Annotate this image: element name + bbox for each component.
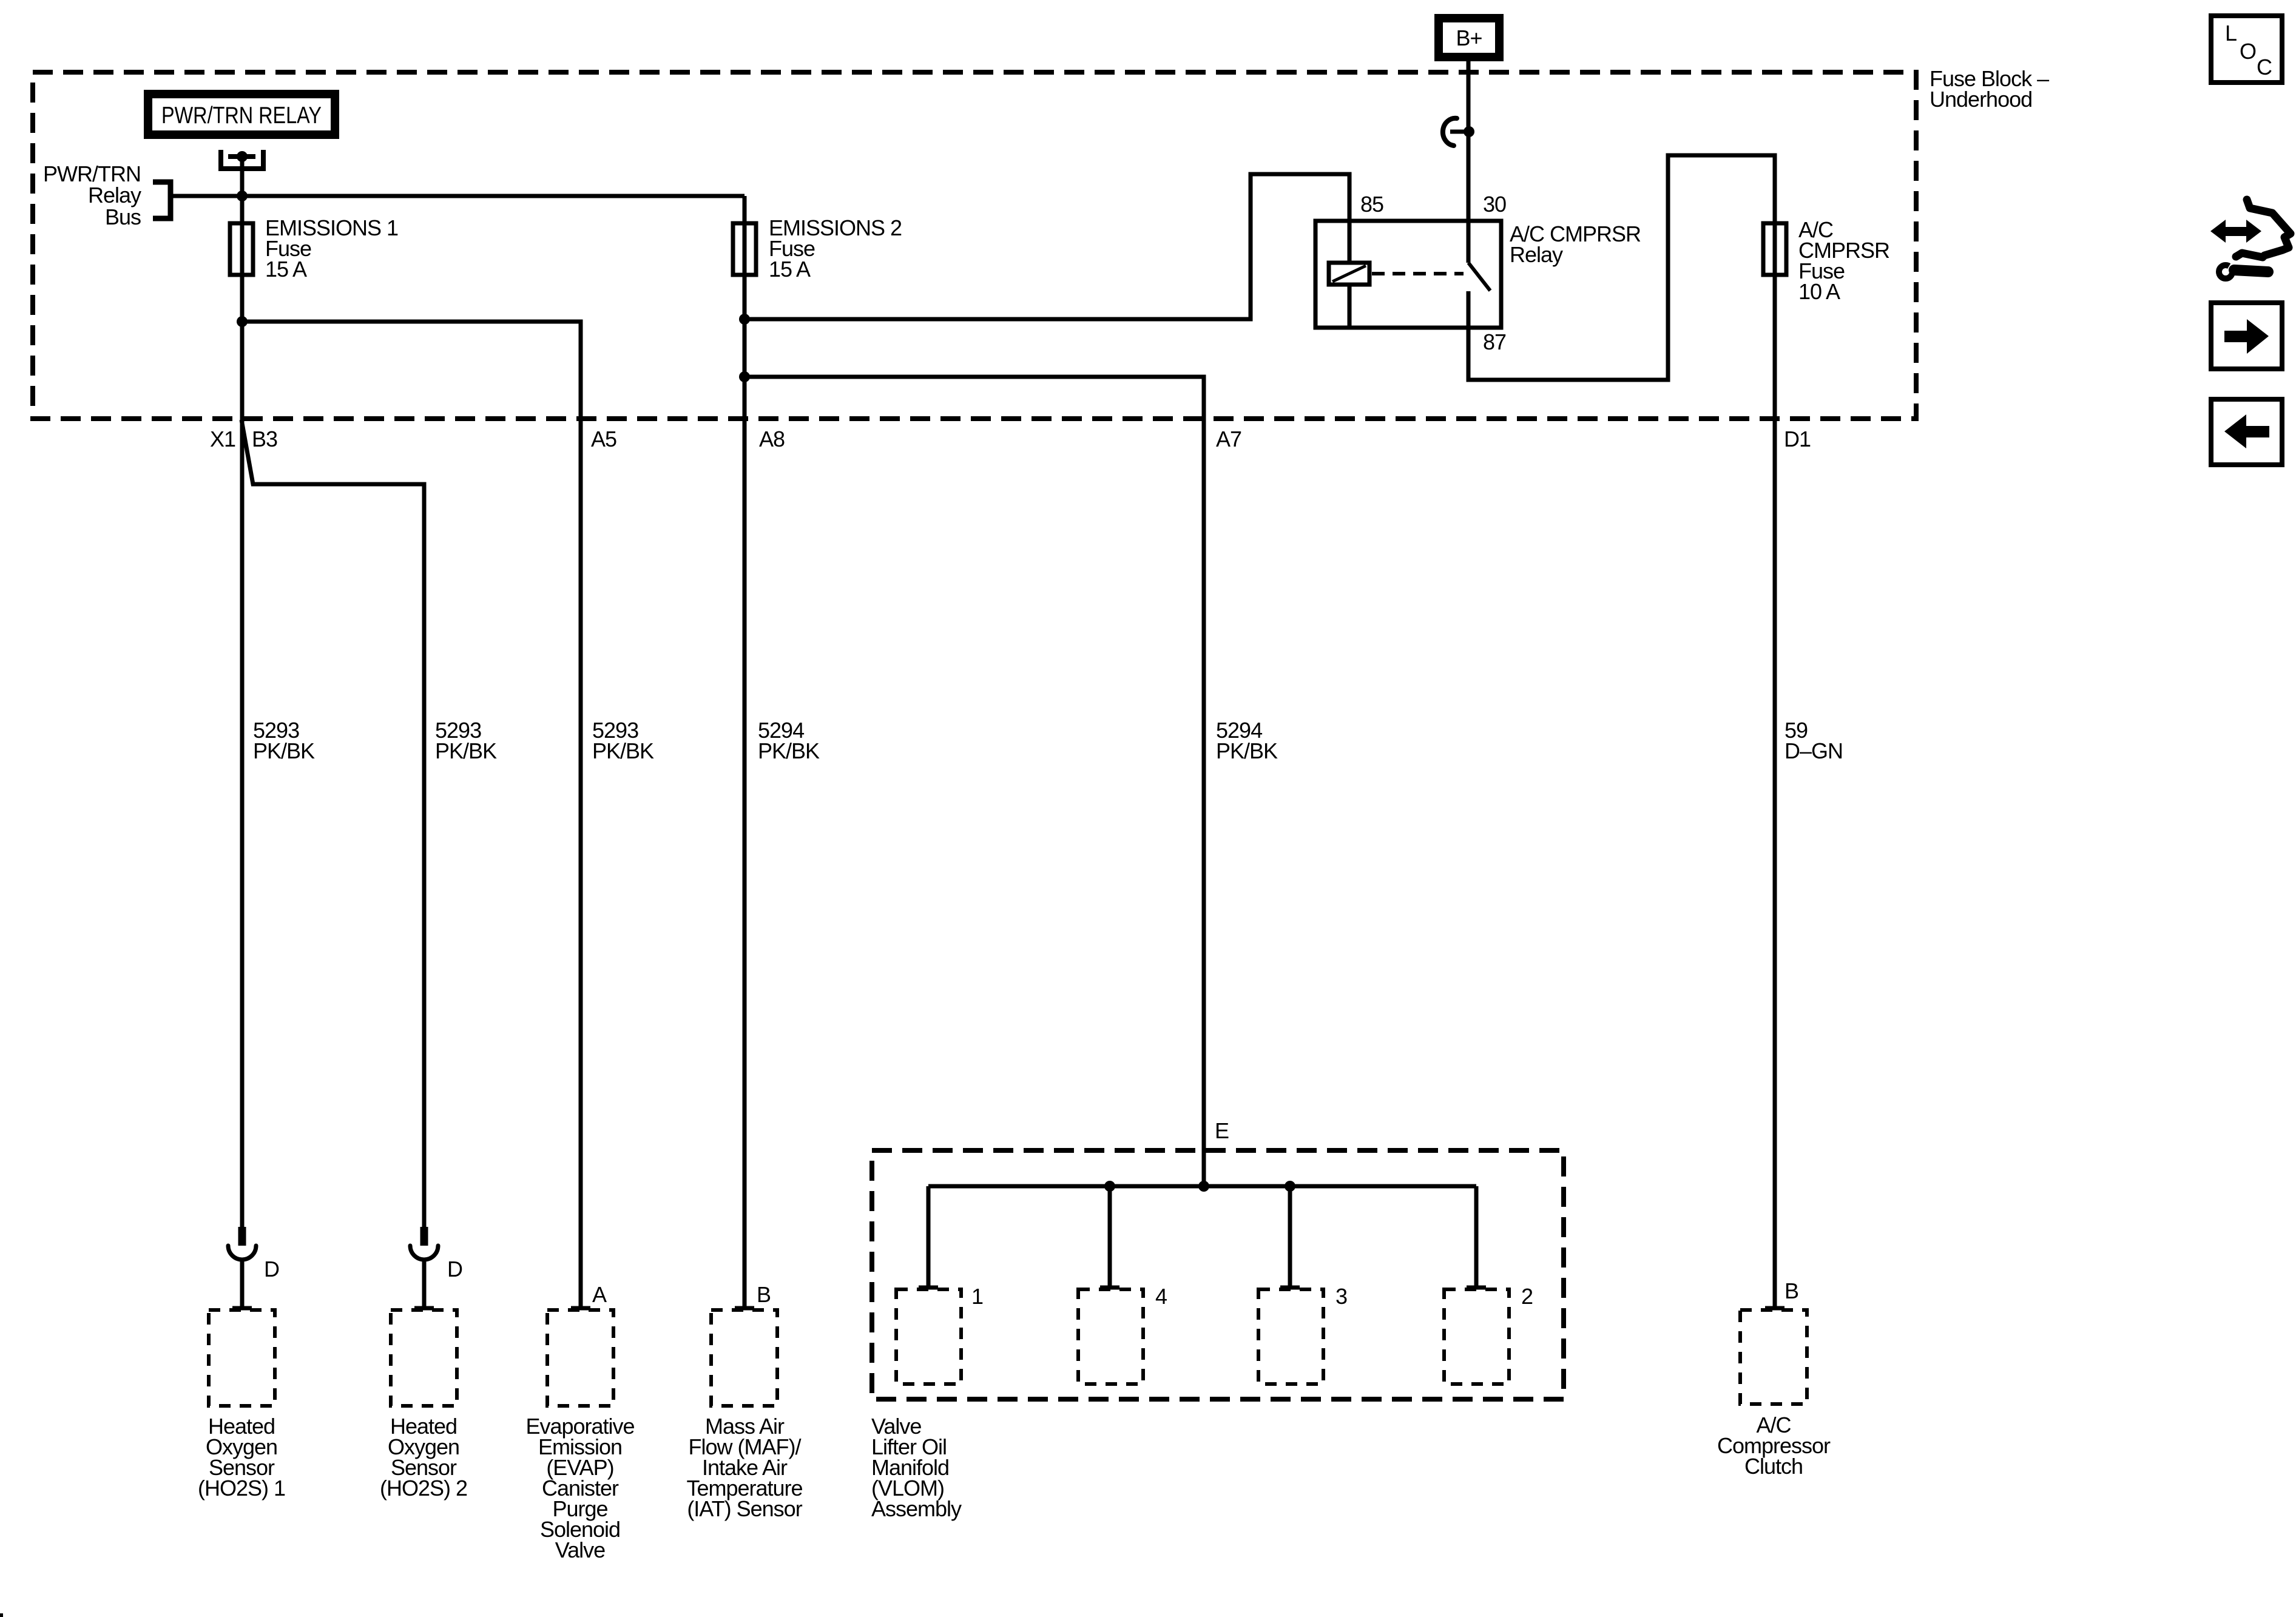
solenoid 2 dashed box	[1444, 1289, 1509, 1384]
T-bar EVAP	[571, 1306, 590, 1311]
PWR/TRN RELAY label box	[148, 94, 335, 135]
relay dashed actuation link	[1372, 272, 1464, 275]
HO2S 1 connector symbol	[238, 1227, 246, 1246]
svg-text:Clutch: Clutch	[1744, 1454, 1803, 1479]
svg-text:2: 2	[1521, 1284, 1533, 1309]
junction dot below fuse EMISSIONS 1	[237, 316, 248, 327]
svg-text:B: B	[757, 1282, 771, 1307]
wire: cup to bus	[240, 157, 245, 196]
svg-text:B3: B3	[252, 427, 277, 451]
HO2S 2 connector dashed box	[391, 1310, 457, 1406]
VLOM assembly dashed box	[872, 1150, 1564, 1399]
fuse EMISSIONS 1	[230, 223, 253, 275]
svg-text:85: 85	[1360, 192, 1383, 217]
wire: branch to HO2S 2 (diagonal)	[241, 420, 424, 1228]
LOC icon box	[2211, 16, 2282, 83]
svg-text:(HO2S) 2: (HO2S) 2	[380, 1476, 467, 1501]
solenoid 1 dashed box	[896, 1289, 961, 1384]
svg-text:10 A: 10 A	[1798, 279, 1840, 304]
svg-text:Relay: Relay	[88, 183, 141, 208]
solenoid 3 dashed box	[1258, 1289, 1323, 1384]
wire: relay bus horizontal to EMISSIONS 2	[171, 194, 745, 198]
svg-text:Bus: Bus	[105, 204, 141, 229]
svg-text:O: O	[2240, 39, 2256, 64]
svg-text:PK/BK: PK/BK	[253, 738, 315, 763]
HO2S 2 connector symbol	[420, 1227, 428, 1246]
svg-text:PWR/TRN RELAY: PWR/TRN RELAY	[161, 103, 322, 129]
junction dot below fuse EMISSIONS 2	[739, 314, 750, 325]
T-bar MAF	[735, 1306, 754, 1311]
junction dot bus / emissions 1	[237, 191, 248, 201]
junction dot VLOM bus at solenoid 4	[1104, 1181, 1115, 1192]
svg-text:Valve: Valve	[555, 1538, 605, 1562]
T-bar A/C clutch	[1765, 1306, 1784, 1311]
svg-text:3: 3	[1335, 1284, 1347, 1309]
T-bar HO2S 2	[414, 1306, 434, 1311]
svg-text:1: 1	[971, 1284, 983, 1309]
svg-text:30: 30	[1483, 192, 1506, 217]
DLC diagnostic icon: double arrow	[2210, 220, 2226, 243]
PWR/TRN relay coil terminal cup	[221, 150, 263, 169]
svg-text:E: E	[1215, 1118, 1229, 1143]
clip symbol on B+ wire	[1443, 118, 1457, 146]
EVAP connector dashed box	[547, 1310, 613, 1406]
wire: emissions 1 vertical (to HO2S 1)	[240, 196, 245, 1228]
VLOM internal bus	[928, 1184, 1476, 1189]
svg-text:PK/BK: PK/BK	[435, 738, 497, 763]
svg-text:15 A: 15 A	[265, 257, 307, 282]
junction dot A7 branch	[739, 371, 750, 382]
svg-text:PK/BK: PK/BK	[1216, 738, 1278, 763]
right arrow icon box	[2211, 303, 2282, 369]
wire: relay pin 87 to A/C CMPRSR fuse and A/C clutch	[1468, 155, 1775, 1307]
wire drop to solenoid 3	[1288, 1186, 1292, 1288]
wire: branch to VLOM connector E	[745, 377, 1204, 1186]
wire below coil	[1348, 285, 1352, 328]
svg-text:X1: X1	[210, 427, 235, 451]
fuse block underhood dashed box	[33, 72, 1916, 419]
junction dot VLOM bus at solenoid 3	[1285, 1181, 1295, 1192]
svg-text:L: L	[2225, 21, 2237, 46]
wire: B+ down to relay pin 30	[1467, 61, 1471, 263]
svg-text:A8: A8	[759, 427, 785, 451]
fuse A/C CMPRSR	[1763, 223, 1786, 275]
PWR/TRN relay bus bracket	[153, 182, 171, 218]
wire: emissions 2 vertical (to MAF/IAT)	[743, 196, 747, 1307]
DLC diagnostic icon: hook outline	[2236, 200, 2291, 257]
wire drop to solenoid 1	[927, 1186, 931, 1288]
svg-text:D1: D1	[1784, 427, 1811, 451]
svg-text:C: C	[2257, 55, 2272, 79]
svg-text:(HO2S) 1: (HO2S) 1	[198, 1476, 285, 1501]
HO2S 1 connector dashed box	[209, 1310, 275, 1406]
svg-text:A: A	[592, 1282, 607, 1307]
svg-text:Assembly: Assembly	[871, 1496, 962, 1521]
relay A/C CMPRSR box	[1315, 221, 1501, 328]
DLC diagnostic icon: wrench	[2219, 265, 2232, 279]
svg-text:B: B	[1784, 1278, 1798, 1303]
svg-text:D: D	[264, 1257, 279, 1281]
svg-text:PK/BK: PK/BK	[758, 738, 820, 763]
svg-text:D–GN: D–GN	[1784, 738, 1843, 763]
wire drop to solenoid 2	[1474, 1186, 1479, 1288]
svg-text:B+: B+	[1456, 25, 1482, 50]
relay coil	[1329, 263, 1369, 285]
svg-text:Underhood: Underhood	[1930, 87, 2032, 112]
page corner mark	[0, 1613, 3, 1617]
svg-text:(IAT) Sensor: (IAT) Sensor	[687, 1496, 802, 1521]
junction dot at cup	[237, 151, 248, 162]
svg-text:D: D	[447, 1257, 462, 1281]
fuse EMISSIONS 2	[733, 223, 756, 275]
B+ terminal box	[1439, 18, 1499, 57]
svg-text:PK/BK: PK/BK	[592, 738, 654, 763]
wire: branch to A5	[242, 322, 581, 1307]
svg-text:A5: A5	[591, 427, 616, 451]
relay switch blade	[1468, 263, 1490, 291]
left arrow icon box	[2211, 399, 2282, 465]
junction dot clip	[1464, 126, 1474, 137]
MAF connector dashed box	[711, 1310, 777, 1406]
solenoid 4 dashed box	[1078, 1289, 1143, 1384]
svg-text:15 A: 15 A	[769, 257, 811, 282]
junction dot VLOM bus at E wire	[1198, 1181, 1209, 1192]
A/C compressor clutch dashed box	[1740, 1310, 1807, 1404]
wire drop to solenoid 4	[1108, 1186, 1112, 1288]
wire: branch to relay pin 85	[745, 174, 1349, 319]
svg-text:A7: A7	[1216, 427, 1241, 451]
svg-text:87: 87	[1483, 329, 1506, 354]
T-bar HO2S 1	[232, 1306, 252, 1311]
svg-text:4: 4	[1155, 1284, 1167, 1309]
svg-text:Relay: Relay	[1510, 242, 1563, 267]
